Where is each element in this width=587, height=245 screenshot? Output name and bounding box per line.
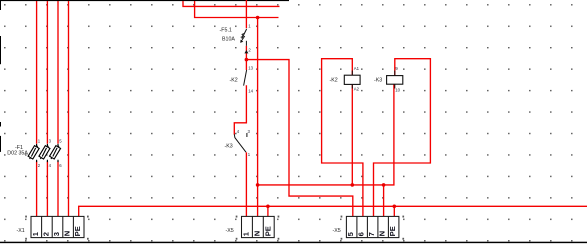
svg-text:D02 35A: D02 35A [7, 151, 28, 157]
svg-text:10: 10 [395, 88, 400, 93]
junction node PE right [393, 205, 397, 209]
junction node PE middle [266, 205, 270, 209]
wire phase L3 lower [57, 161, 59, 216]
wire K2.A1 to X5:6 [322, 59, 363, 217]
wire K3.A1 to X5:7 [374, 59, 431, 217]
wire feed to F5.1 pin 1 [245, 0, 247, 28]
wire node to K2 contact [245, 60, 247, 70]
svg-text:PE: PE [388, 226, 397, 236]
junction node K2.A2 [351, 183, 355, 187]
svg-text:-F5.1: -F5.1 [220, 28, 232, 34]
svg-text:-K2: -K2 [330, 78, 338, 84]
terminal strip X5 middle [226, 216, 280, 240]
junction node N bus [256, 16, 260, 20]
wire F5.1 pin 2 to node [245, 46, 247, 60]
wire K2 contact to K3 contact [234, 85, 246, 134]
wire phase L1 lower [36, 161, 38, 216]
svg-text:-K2: -K2 [230, 78, 238, 84]
junction node F5.1 output [245, 58, 249, 62]
wire K3 contact to X5:4 [245, 152, 247, 216]
wire top bus 1 [183, 1, 280, 6]
svg-text:14: 14 [248, 89, 253, 94]
svg-text:PE: PE [73, 226, 82, 236]
wire F5.1 output to X5:5 [246, 60, 352, 217]
wire N drop to X5:N [383, 185, 385, 217]
wire K2.A2 drop [351, 84, 353, 184]
junction node N terminal [382, 183, 386, 187]
coil K3 [374, 71, 403, 89]
svg-text:A1: A1 [354, 66, 360, 71]
contact K2 (NO) [230, 70, 247, 86]
svg-text:B10A: B10A [222, 37, 235, 43]
svg-text:N: N [378, 231, 387, 236]
svg-text:N: N [252, 231, 261, 236]
wire top bus 2 [195, 1, 279, 18]
svg-text:-K3: -K3 [374, 78, 382, 84]
wire PE bus [79, 206, 587, 216]
wire N horizontal link [258, 84, 394, 185]
junction node N left [256, 183, 260, 187]
svg-text:2: 2 [41, 232, 50, 236]
svg-text:3: 3 [52, 232, 61, 236]
svg-text:-K3: -K3 [225, 144, 233, 150]
svg-text:A2: A2 [354, 87, 360, 92]
svg-text:13: 13 [248, 66, 253, 71]
svg-text:-X1: -X1 [17, 228, 25, 234]
wire phase L2 lower [46, 161, 48, 216]
contact K3 (changeover) [225, 133, 247, 152]
svg-text:PE: PE [263, 226, 272, 236]
terminal strip X1 [17, 216, 89, 240]
circuit breaker F5.1 [220, 28, 249, 54]
terminal strip X5 right [333, 216, 405, 240]
wire PE drop right X5 [393, 206, 395, 216]
svg-text:-X5: -X5 [226, 228, 234, 234]
wire phase L3 upper [57, 1, 59, 144]
coil K2 [330, 71, 361, 89]
wire neutral to X1 [68, 1, 70, 217]
wire phase L1 upper [36, 1, 38, 144]
svg-text:7: 7 [367, 232, 376, 236]
svg-text:N: N [63, 231, 72, 236]
svg-text:-X5: -X5 [333, 228, 341, 234]
wire N tap vertical [257, 18, 259, 217]
svg-text:6: 6 [357, 232, 366, 236]
wire phase L2 upper [46, 1, 48, 144]
wire PE drop middle X5 [267, 206, 269, 216]
fuse switch F1 [7, 144, 60, 162]
